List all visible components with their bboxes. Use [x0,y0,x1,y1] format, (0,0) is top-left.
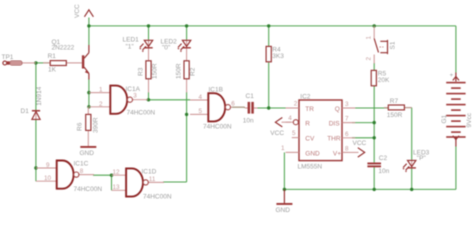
svg-text:1: 1 [99,87,103,94]
svg-text:74HC00N: 74HC00N [203,124,232,131]
svg-text:74HC00N: 74HC00N [143,194,172,201]
wire R2 bottom to IC1B pin5 node [186,92,188,114]
svg-text:7: 7 [345,116,349,123]
svg-text:2: 2 [294,100,298,107]
switch S1 [366,26,397,64]
svg-text:11: 11 [149,176,156,183]
svg-text:9Vcc: 9Vcc [466,112,473,127]
testpoint TP1 [2,54,37,65]
wire IC2 THR to S1 column [352,137,374,139]
wire IC1B output to C1 [232,106,245,109]
wire rail to R4 [268,26,270,46]
svg-text:"0": "0" [162,44,171,51]
svg-text:"1": "1" [126,43,135,50]
wire R7 to LED3 column [405,108,412,160]
node IC1A out R3 [147,98,150,101]
node IC2 GND rail [283,188,286,191]
node DIS column [373,121,376,124]
svg-text:20K: 20K [378,77,390,84]
svg-text:1K: 1K [48,67,57,74]
wire R5 to DIS/THR/C2 column [373,86,375,162]
svg-text:VCC: VCC [270,130,284,137]
svg-text:LM555N: LM555N [298,163,323,170]
LED3 [402,149,429,172]
wire battery right edge top [455,26,457,73]
resistor R1 [43,53,80,73]
wire Q1 emitter column [88,79,90,107]
svg-text:Q: Q [335,106,340,113]
svg-text:GND: GND [305,150,320,157]
svg-text:V+: V+ [333,150,341,157]
svg-text:2N2222: 2N2222 [52,45,75,52]
svg-text:IC2: IC2 [300,93,311,100]
node LED3 ground [410,188,413,191]
svg-text:13: 13 [113,184,121,191]
wire IC1D output up to pin5 node [163,114,187,182]
nand gate IC1A 74HC00N [89,86,155,117]
node C2 ground [373,188,376,191]
svg-text:10n: 10n [378,168,389,175]
wire rail to LED2 [186,26,188,40]
wire IC2 GND pin down [283,152,285,189]
svg-text:9: 9 [46,162,50,169]
svg-text:3K3: 3K3 [272,53,284,60]
svg-text:R1: R1 [48,53,57,60]
svg-text:C2: C2 [379,155,388,162]
svg-text:IC1D: IC1D [142,169,157,176]
wire LED3 to ground rail [411,169,413,190]
node emitter pin1 [87,91,90,94]
supply VCC top-left [74,4,93,18]
svg-text:2: 2 [99,101,103,108]
LED2 [161,39,191,53]
svg-text:74HC00N: 74HC00N [127,110,156,117]
svg-text:R: R [305,120,310,127]
svg-text:2: 2 [366,57,373,61]
node rail-VCC [87,24,90,27]
svg-text:S1: S1 [390,41,397,49]
node IC1B pin5 [185,113,188,116]
wire bottom ground rail [284,188,456,190]
resistor R7 [384,98,412,119]
wire D1 to IC1C inputs [35,120,37,182]
svg-text:R7: R7 [390,98,399,105]
node emitter pin2 R6 [87,105,90,108]
node rail-LED2 [185,24,188,27]
svg-text:4: 4 [288,115,292,122]
node THR column [373,136,376,139]
svg-text:R3: R3 [138,67,145,76]
svg-text:4: 4 [199,94,203,101]
node rail-LED1 [147,24,150,27]
svg-text:1: 1 [281,145,285,152]
svg-text:GND: GND [276,207,291,214]
svg-text:3: 3 [345,101,349,108]
resistor R5 [371,70,390,85]
svg-text:+: + [450,72,454,79]
wire IC2 DIS to S1 column [352,122,374,124]
svg-text:"P": "P" [417,155,427,162]
svg-text:1N914: 1N914 [36,86,43,106]
ground below IC2 [276,189,293,214]
svg-text:D1: D1 [21,108,30,115]
svg-text:6: 6 [345,131,349,138]
transistor Q1 [52,39,89,80]
svg-text:390R: 390R [92,117,99,133]
svg-text:GND: GND [80,150,95,157]
svg-text:THR: THR [327,136,341,143]
svg-text:C1: C1 [246,93,255,100]
diode D1 1N914 [21,86,43,119]
wire S1 to R5 [373,63,375,71]
svg-text:CV: CV [305,136,315,143]
wire battery right edge bottom [455,147,457,190]
capacitor C1 [243,93,258,125]
svg-text:10: 10 [44,175,52,182]
wire VCC top rail [89,25,456,27]
node D1-IC1C pin9 [34,166,37,169]
wire C2 to ground rail [373,167,375,189]
svg-text:3: 3 [133,93,137,100]
svg-text:74HC00N: 74HC00N [74,186,103,193]
capacitor C2 [367,155,389,175]
svg-text:10n: 10n [243,117,254,124]
svg-text:1: 1 [366,36,373,40]
resistor R3 [138,49,159,93]
supply VCC at IC2 pin8 (V+) [349,140,367,157]
wire R3 bottom to node [148,92,150,100]
svg-text:IC1A: IC1A [126,86,141,93]
svg-text:VCC: VCC [74,4,81,18]
LED1 [123,37,153,53]
svg-text:VCC: VCC [353,140,367,147]
svg-text:150R: 150R [176,63,183,79]
svg-text:8: 8 [345,146,349,153]
ground below R6 [80,146,97,157]
wire C1 to IC2 TR [257,107,286,109]
resistor R4 [266,46,284,61]
svg-text:8: 8 [80,168,84,175]
svg-text:TR: TR [305,106,314,113]
supply VCC at IC2 pin4 (reset) [270,118,291,137]
node IC1D pin12 [110,174,113,177]
nand gate IC1B 74HC00N [190,87,245,131]
svg-text:DIS: DIS [329,120,341,127]
svg-text:150R: 150R [152,63,159,79]
node rail-R4 [267,24,270,27]
wire VCC stub to rail [88,18,90,26]
node rail-S1 [373,24,376,27]
svg-text:150R: 150R [387,112,403,119]
wire node to D1 [35,63,37,110]
nand gate IC1D 74HC00N [112,168,172,200]
wire rail to LED1 [148,26,150,40]
nand gate IC1C 74HC00N [36,161,102,194]
svg-text:5: 5 [199,108,203,115]
svg-text:TP1: TP1 [2,54,14,61]
wire IC2 Q to R7 [352,107,388,109]
wire IC1C output to IC1D inputs [93,174,112,176]
wire Q1 collector to rail [88,26,90,45]
svg-text:12: 12 [113,169,121,176]
resistor R2 [176,49,197,93]
wire IC1D pin13 branch [111,175,113,190]
svg-text:R2: R2 [190,67,197,76]
svg-text:R6: R6 [77,122,84,131]
svg-text:6: 6 [231,101,235,108]
svg-text:IC1C: IC1C [74,161,89,168]
svg-text:IC1B: IC1B [209,87,223,94]
wire TP1 node to R1 [34,62,49,64]
wire R4 to TR node [268,63,270,109]
resistor R6 [77,107,100,146]
battery G1 [441,72,473,147]
svg-text:5: 5 [292,130,296,137]
node TP1-D1 [34,61,37,64]
ic IC2 LM555N [281,93,355,170]
node C1-R4-TR [267,106,270,109]
wire IC1A output row [146,99,190,101]
